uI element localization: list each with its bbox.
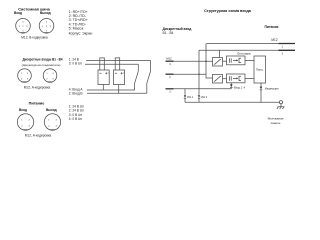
wire L2 input B: [174, 74, 213, 78]
pin 2 bold bar: [166, 73, 174, 75]
wire opto return to 0V: [230, 83, 232, 89]
LED VD4: [260, 87, 263, 90]
pin bold tip 0V: [279, 49, 296, 51]
pin 3 bold bar: [166, 88, 174, 90]
wire 0V feed: [85, 63, 138, 65]
wire L1 input A: [174, 60, 213, 62]
svg-text:Индикация: Индикация: [265, 86, 279, 90]
svg-text:Выход: Выход: [46, 108, 57, 112]
sensor S1 box: [98, 70, 109, 85]
svg-text:Оптопара: Оптопара: [237, 52, 251, 56]
wire processor indication: [260, 83, 262, 102]
svg-text:Дискретные входы В1 - В4: Дискретные входы В1 - В4: [23, 58, 63, 62]
svg-text:Проц.: Проц.: [256, 67, 264, 71]
connector X1 bus-in M12 circle: [16, 19, 31, 34]
zener VD3: [230, 84, 233, 87]
filter F2 symbol: [214, 76, 221, 81]
wire 0V feed filter: [218, 50, 220, 57]
junction dot L1: [205, 61, 206, 62]
svg-text:Вход: Вход: [14, 11, 22, 15]
wire TVS2 drop: [198, 50, 200, 102]
svg-text:M12, А-кодировка: M12, А-кодировка: [24, 86, 51, 90]
svg-text:панель: панель: [271, 121, 281, 125]
processor box: [254, 56, 266, 83]
svg-text:VD1.2: VD1.2: [201, 97, 208, 99]
wire 24V feed: [86, 59, 151, 61]
switch SA1 contact: [135, 64, 139, 90]
connector X6 power-out M12 circle: [44, 114, 60, 130]
wire F2 to opto2: [223, 78, 227, 80]
svg-text:M12: M12: [271, 38, 277, 42]
wire 24V out to power connector: [207, 43, 281, 45]
connector X3 DI M12 circle: [18, 69, 32, 83]
wire 24V drop: [205, 44, 207, 75]
svg-text:Питание: Питание: [264, 25, 278, 29]
optocoupler U2 box: [227, 74, 246, 83]
wire 0V out to power connector: [199, 49, 280, 51]
opto U1 symbol: [230, 58, 242, 63]
wire L3 0V: [174, 88, 232, 90]
wire input B: [87, 92, 147, 94]
svg-text:(два входа на соединитель): (два входа на соединитель): [22, 63, 61, 67]
svg-text:M12, А-кодировка: M12, А-кодировка: [25, 134, 52, 138]
optocoupler U1 box: [227, 56, 246, 65]
pin bold tip 24V: [279, 43, 296, 45]
svg-text:Вход: Вход: [19, 108, 27, 112]
wire F1 to opto1: [223, 60, 227, 62]
svg-text:M12, В-кодировка: M12, В-кодировка: [21, 36, 48, 40]
earth terminal circle: [279, 101, 282, 104]
DI pinlist inputs: [69, 88, 84, 96]
svg-text:4: 0 В Uп: 4: 0 В Uп: [69, 117, 83, 121]
TVS1 diode: [184, 95, 186, 98]
junction dot L2: [198, 74, 199, 75]
wire S2 output: [118, 85, 120, 94]
svg-text:В1 - В4: В1 - В4: [163, 31, 174, 35]
earth rail: [185, 101, 279, 103]
wire input A: [87, 89, 135, 91]
connector X2 bus-out M12 circle: [39, 19, 54, 34]
pin 4 bold bar: [166, 60, 174, 62]
svg-text:Структурная схема входа: Структурная схема входа: [204, 9, 252, 13]
svg-text:VD1.1: VD1.1: [187, 97, 194, 99]
pinlist system bus: [69, 10, 93, 36]
wire sensor1 top loop: [100, 58, 105, 70]
wire S1 output: [102, 85, 104, 91]
svg-text:Выход: Выход: [40, 11, 51, 15]
svg-text:2: Вход B: 2: Вход B: [69, 92, 83, 96]
svg-text:Вход 1..4: Вход 1..4: [234, 85, 245, 89]
filter F1 box: [213, 58, 223, 67]
svg-text:5: Масса: 5: Масса: [69, 27, 84, 31]
svg-text:3: 0 В Uп: 3: 0 В Uп: [69, 62, 83, 66]
wire opto1 to processor: [245, 60, 254, 62]
connector X4 DI M12 circle: [43, 69, 57, 83]
chassis ground: [277, 104, 285, 109]
DI pinlist supply: [69, 58, 83, 66]
sensor S2 box: [113, 70, 124, 85]
svg-text:Корпус: Экран: Корпус: Экран: [69, 31, 93, 35]
svg-text:М12: М12: [166, 57, 172, 61]
opto U2 symbol: [230, 76, 242, 81]
connector X5 power-in M12 circle: [17, 114, 33, 130]
svg-text:Питание: Питание: [29, 102, 45, 106]
TVS2 diode: [198, 95, 200, 98]
svg-text:Монтажная: Монтажная: [268, 116, 284, 120]
switch SA2 contact: [147, 60, 151, 93]
power pinlist: [69, 104, 84, 121]
filter F1 symbol: [214, 59, 221, 64]
wire sensor2 top loop: [115, 58, 120, 70]
wire opto2 to processor: [245, 77, 254, 79]
filter F2 box: [213, 75, 223, 84]
wire TVS1 drop: [184, 89, 186, 103]
